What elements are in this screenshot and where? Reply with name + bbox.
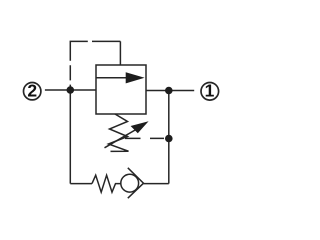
adjustment arrow shaft (105, 130, 137, 148)
node A junction dot (67, 86, 75, 94)
adjustment arrowhead (131, 121, 149, 133)
spring drain line (dashed) (125, 137, 169, 139)
flow arrowhead (126, 72, 145, 83)
port 1 circle (201, 83, 219, 101)
svg-text:1: 1 (205, 81, 215, 101)
node B junction dot (165, 87, 173, 95)
wire: port 2 to valve body (45, 89, 96, 91)
adjustable spring below valve box (109, 114, 129, 151)
node C junction dot (165, 135, 173, 143)
pilot line solid drop into box top (119, 41, 121, 65)
check valve ball (121, 174, 139, 192)
wire: right riser (168, 91, 170, 184)
wire: node A down to bottom branch (69, 90, 71, 183)
wire: check valve to right riser (144, 183, 169, 185)
pilot line (dashed) from node A up and over (70, 41, 120, 90)
port 2 circle (24, 83, 41, 100)
check valve spring (92, 175, 121, 192)
check valve seat (128, 168, 144, 198)
flow path arrow line inside box (96, 77, 129, 79)
valve body box (96, 65, 146, 114)
wire: bottom branch left to check spring (70, 183, 92, 185)
svg-text:2: 2 (27, 81, 37, 101)
wire: valve body to port 1 (146, 90, 194, 92)
